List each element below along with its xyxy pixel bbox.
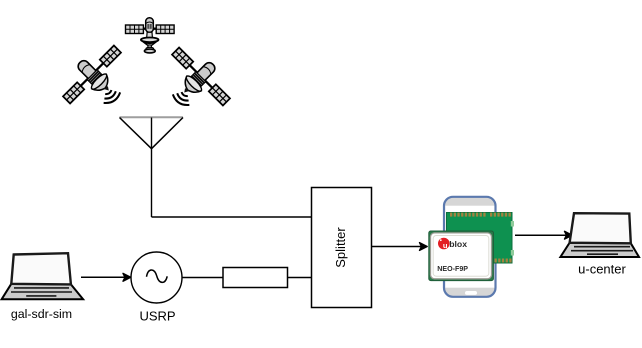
- laptop gal-sdr-sim: [2, 253, 84, 299]
- antenna: [120, 117, 184, 217]
- keyboard lines: [11, 288, 72, 296]
- neck: [147, 32, 153, 37]
- dish: [141, 40, 159, 45]
- arms: [128, 28, 172, 30]
- attenuator box: [223, 268, 288, 288]
- body: [146, 18, 154, 33]
- laptop base: [2, 284, 84, 300]
- u-blox logo: [438, 238, 450, 250]
- side tabs: [511, 221, 514, 227]
- NEO-F9P module: [429, 231, 494, 281]
- satellite right: [151, 39, 238, 126]
- svg-text:gal-sdr-sim: gal-sdr-sim: [11, 307, 72, 321]
- arrow splitter-module: [372, 243, 428, 251]
- satellite left: [55, 37, 142, 124]
- svg-text:u-center: u-center: [578, 262, 626, 277]
- left panel: [126, 25, 144, 34]
- svg-text:NEO-F9P: NEO-F9P: [437, 265, 468, 273]
- phone home button: [465, 291, 477, 295]
- phone screen: [445, 206, 494, 288]
- gold pins bottom right: [495, 259, 512, 263]
- arrow laptop-USRP: [81, 273, 131, 281]
- USRP circle: [131, 252, 182, 303]
- svg-text:blox: blox: [449, 239, 467, 249]
- laptop screen: [570, 213, 631, 243]
- keyboard lines: [571, 247, 633, 255]
- laptop base: [560, 243, 639, 257]
- phone body: [444, 197, 496, 297]
- trumpet bell: [146, 47, 154, 50]
- green PCB: [447, 213, 515, 264]
- arrow PCB-laptop: [515, 231, 572, 239]
- gold pins top: [450, 213, 511, 217]
- splitter box: [312, 188, 372, 308]
- stem: [148, 45, 152, 48]
- wire attenuator-splitter: [288, 277, 312, 279]
- laptop screen: [11, 253, 71, 284]
- svg-text:u: u: [443, 241, 448, 250]
- svg-text:Splitter: Splitter: [333, 227, 348, 268]
- phone: [444, 197, 496, 297]
- wire USRP-attenuator: [182, 277, 223, 279]
- laptop u-center: [560, 213, 639, 257]
- right panel: [156, 25, 174, 34]
- svg-text:USRP: USRP: [139, 309, 175, 324]
- sine symbol: [147, 270, 168, 282]
- satellite middle: [126, 18, 175, 53]
- wire antenna-splitter: [152, 216, 312, 218]
